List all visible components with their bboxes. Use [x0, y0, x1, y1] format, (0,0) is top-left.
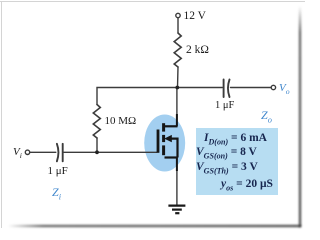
- wire: resistor bottom to drain node: [177, 67, 180, 88]
- capacitor C2 curved plate: [228, 80, 230, 98]
- MOSFET highlight ellipse: [144, 115, 185, 172]
- label: 1 uF output: [215, 100, 234, 111]
- label: 10 MOhm: [105, 115, 137, 127]
- drain tap: [165, 125, 178, 127]
- wire: cap to Vo terminal: [231, 87, 272, 89]
- wire: 12V to resistor top: [177, 18, 179, 33]
- label: 1 uF input: [48, 165, 68, 177]
- channel dash middle: [162, 135, 165, 142]
- node: +12V terminal circle: [176, 13, 180, 17]
- wire: input cap through gate node to gate: [64, 151, 157, 153]
- junction gate node: [95, 150, 99, 154]
- node: Vi terminal circle: [25, 150, 29, 154]
- source tap: [165, 156, 178, 158]
- substrate arrow line: [167, 139, 178, 158]
- wire: feedback top (drain node to above 10M): [97, 88, 178, 105]
- node: Vo terminal circle: [271, 85, 275, 89]
- label: 2 kOhm: [186, 44, 209, 56]
- wire: drain lead down into MOSFET: [176, 88, 178, 127]
- wire: drain lead thick segment inside ellipse: [176, 114, 178, 126]
- wire: source lead thick segment inside ellipse: [176, 158, 178, 172]
- gate bar: [157, 130, 160, 153]
- capacitor C1 straight plate: [62, 144, 64, 162]
- junction drain node: [175, 86, 179, 90]
- channel dash top: [162, 123, 165, 131]
- outer light-grey border (top and left edges): [0, 1, 305, 2]
- parameter text: VGS(on) = 8 V: [196, 146, 257, 160]
- substrate arrowhead: [164, 135, 172, 142]
- capacitor C1 1uF input: curved plate: [57, 144, 59, 162]
- channel dash bottom: [162, 145, 165, 155]
- label: 12 V: [184, 10, 206, 22]
- parameter text: yos = 20 uS: [221, 178, 273, 192]
- parameter text: ID(on) = 6 mA: [204, 132, 267, 146]
- wire: drain node to output cap: [178, 87, 223, 89]
- capacitor C2 1uF output: straight plate: [223, 80, 225, 98]
- resistor R1 2k: [174, 33, 181, 67]
- wire: Vi to input cap: [30, 151, 56, 153]
- label: Zi: [52, 185, 61, 201]
- label: Vo: [279, 82, 290, 96]
- ground: [168, 206, 185, 214]
- transistor Q1 E-MOSFET symbol: [158, 114, 178, 171]
- label: Vi: [13, 146, 22, 160]
- resistor R2 10M: [93, 105, 100, 139]
- parameter box: [196, 128, 278, 195]
- drop shadow bottom: [8, 225, 301, 227]
- wire: 10M bottom to gate node: [96, 138, 98, 152]
- parameter text: VGS(Th) = 3 V: [196, 161, 258, 175]
- label: Zo: [261, 108, 272, 124]
- drop shadow right: [299, 6, 301, 227]
- wire: source lead from MOSFET to ground: [176, 158, 178, 205]
